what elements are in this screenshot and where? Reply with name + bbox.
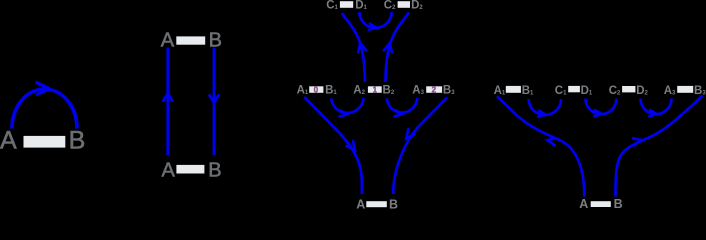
svg-text:2: 2 — [432, 86, 437, 95]
svg-text:A: A — [162, 159, 176, 181]
svg-text:B: B — [389, 197, 398, 209]
svg-text:0: 0 — [314, 86, 319, 95]
svg-text:B: B — [208, 159, 221, 181]
svg-text:B: B — [69, 127, 86, 155]
svg-text:A: A — [0, 127, 17, 155]
svg-text:A: A — [356, 197, 365, 209]
svg-text:B: B — [614, 197, 623, 209]
svg-text:A: A — [579, 197, 588, 209]
svg-text:1: 1 — [373, 86, 378, 95]
